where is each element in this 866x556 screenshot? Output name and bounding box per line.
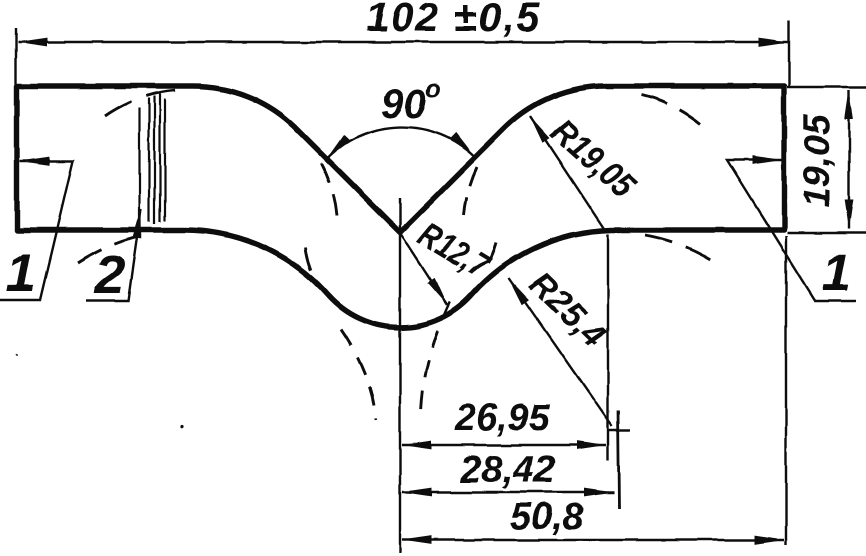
dimension line 19,05 [848,90,850,229]
extension line: right bar edge down to 50,8 dim [785,236,787,545]
dashed arc: left R19.05 circle continuation (outer) [105,90,178,116]
90 degree angle arc with arrows [327,127,474,159]
dimension line 102 +-0,5 [18,41,788,43]
dashed arc: left R25.4 circle tail below valley [341,330,376,420]
svg-text:28,42: 28,42 [459,449,555,491]
leader for label 1 left [0,161,73,300]
extension tick for 26,95 (R19.05 centre) [607,234,609,460]
dashed arc: right R19.05 circle continuation (outer) [641,95,700,124]
extension line top right (19,05 dim) [787,86,866,88]
dashed arc: left R25.4 circle continuation (outer) [78,236,141,263]
dashed arc: R12.7 circle continuation right [488,243,496,263]
svg-text:1: 1 [822,244,851,302]
dashed arc: left R19.05 circle continuation (near notch) [321,163,337,216]
radius line R19,05 [530,116,606,231]
svg-text:19,05: 19,05 [796,113,837,207]
svg-text:1: 1 [6,243,36,303]
dimension line 26,95 [402,444,606,446]
dashed arc: right R19.05 circle continuation (near notch) [464,167,477,215]
svg-text:2: 2 [94,245,125,305]
specimen outline [17,86,784,327]
center line (vertical axis of notch) [399,198,401,553]
dashed arc: right R25.4 circle tail below valley [421,302,450,412]
dimension line 28,42 [402,491,614,493]
svg-text:26,95: 26,95 [454,397,551,439]
extension line left (102 dim) [15,28,17,84]
center mark dot of left R25.4 [180,425,183,428]
dashed arc: right R25.4 circle continuation (outer) [645,235,716,263]
weld zone hatch lines (item 2) [140,94,166,224]
dashed arc: R12.7 circle continuation left [305,247,312,273]
svg-text:90: 90 [381,81,427,127]
svg-text:o: o [426,75,441,103]
dimension line 50,8 [402,539,784,541]
svg-text:102 ±0,5: 102 ±0,5 [366,0,541,40]
svg-text:50,8: 50,8 [510,496,585,538]
stray speck [16,354,19,357]
extension line bottom right (19,05 dim) [787,232,866,234]
extension line right (102 dim) [788,20,790,88]
leader for label 2 [86,209,141,301]
extension tick for 28,42 [618,410,619,508]
radius line R12,7 [401,234,447,305]
leader for label 1 right [727,160,856,301]
centre cross bar of R25.4 [609,429,630,431]
radius line R25,4 [509,278,612,426]
